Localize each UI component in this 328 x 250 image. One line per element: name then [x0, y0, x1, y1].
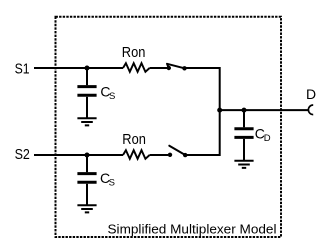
switch SW1 blade [167, 64, 185, 69]
node junction S2/CS [85, 153, 90, 158]
capacitor CD stub [243, 110, 245, 127]
svg-text:S2: S2 [15, 146, 30, 163]
capacitor CS (S2) plates [77, 174, 96, 183]
ground (S2) [77, 205, 96, 212]
svg-text:S: S [109, 178, 115, 189]
switch SW1 left contact [167, 66, 171, 70]
node junction output/CD [242, 108, 247, 113]
wire S1 input [34, 67, 123, 69]
node junction bus/output [217, 108, 222, 113]
switch SW2 left contact [168, 153, 172, 157]
switch SW2 right contact [183, 153, 187, 157]
wire resistor to switch (S2) [150, 154, 168, 156]
svg-text:Ron: Ron [122, 45, 146, 61]
node junction S1/CS [85, 66, 90, 71]
svg-text:Ron: Ron [122, 132, 146, 148]
svg-text:S: S [109, 91, 115, 102]
capacitor CS (S2) stub [86, 155, 88, 172]
wire switch S1 to output bus [185, 68, 220, 155]
wire output bus to terminal D [220, 109, 308, 111]
wire S2 input [34, 154, 123, 156]
capacitor CS (S1) stub [86, 68, 88, 85]
capacitor CD lower stub [243, 139, 245, 161]
resistor Ron (S2) [123, 150, 150, 159]
model boundary dashed box [56, 17, 282, 237]
switch SW1 right contact [182, 66, 186, 70]
ground (S1) [77, 118, 96, 125]
resistor Ron (S1) [123, 63, 150, 72]
capacitor CS (S2) lower stub [86, 184, 88, 206]
svg-text:D: D [306, 86, 316, 102]
terminal D open contact [308, 105, 313, 115]
capacitor CS (S1) lower stub [86, 97, 88, 119]
svg-text:Simplified Multiplexer Model: Simplified Multiplexer Model [108, 221, 277, 236]
switch SW2 blade [169, 146, 185, 155]
capacitor CD plates [234, 129, 253, 138]
capacitor CS (S1) plates [77, 87, 96, 96]
wire resistor to switch (S1) [150, 67, 167, 69]
svg-text:D: D [264, 133, 271, 144]
ground (CD) [234, 161, 253, 168]
svg-text:S1: S1 [15, 61, 30, 78]
